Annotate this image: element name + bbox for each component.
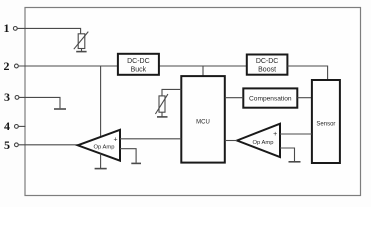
- wire U1 negative supply to ground: [100, 154, 102, 168]
- pin 5 terminal: [15, 143, 19, 147]
- wire DC-DC Buck to DC-DC Boost: [159, 65, 247, 67]
- svg-text:Compensation: Compensation: [249, 95, 292, 102]
- pin 2 terminal: [15, 64, 19, 68]
- ground at U1 inverting input: [131, 162, 141, 164]
- svg-text:Op Amp: Op Amp: [94, 145, 115, 151]
- wire pin5 to op-amp U1 output: [18, 144, 78, 146]
- ground below op-amp U1: [95, 168, 107, 170]
- svg-text:4: 4: [4, 119, 10, 133]
- wire U2 inverting input to ground: [280, 148, 295, 161]
- svg-text:+: +: [113, 136, 117, 143]
- Compensation block: [243, 88, 297, 107]
- pin 1 terminal: [13, 27, 17, 31]
- svg-text:Op Amp: Op Amp: [253, 140, 274, 146]
- svg-text:1: 1: [4, 21, 10, 35]
- thermistor RT2: [155, 94, 168, 114]
- svg-text:Boost: Boost: [258, 67, 276, 74]
- pin 3 terminal: [15, 96, 19, 100]
- wire Compensation to Sensor: [297, 97, 312, 99]
- wire junction drop to MCU top: [202, 66, 204, 76]
- wire junction drop to left op-amp supply: [100, 66, 102, 138]
- thermistor RT1: [74, 32, 89, 50]
- svg-text:+: +: [273, 131, 277, 138]
- svg-text:MCU: MCU: [196, 120, 210, 126]
- outer border frame of IC block: [25, 8, 361, 196]
- wire pin2 to DC-DC Buck: [18, 65, 118, 67]
- DC-DC Buck converter block: [118, 54, 159, 75]
- svg-text:DC-DC: DC-DC: [127, 58, 150, 65]
- wire U1 inverting input to ground: [120, 149, 136, 163]
- svg-text:Buck: Buck: [131, 67, 147, 74]
- wire U2 output to MCU: [225, 140, 237, 142]
- wire U2 non-inverting input to Sensor: [280, 133, 312, 135]
- MCU block: [181, 76, 225, 163]
- DC-DC Boost converter block: [247, 55, 288, 75]
- svg-text:Sensor: Sensor: [316, 122, 335, 128]
- svg-text:5: 5: [4, 138, 10, 152]
- ground below RT2: [157, 112, 168, 117]
- svg-text:2: 2: [4, 59, 10, 73]
- wire pin3 to ground: [19, 97, 60, 108]
- ground for pin 3: [54, 108, 66, 110]
- svg-text:3: 3: [4, 90, 10, 104]
- wire pin1 to thermistor RT1: [17, 28, 80, 33]
- svg-text:DC-DC: DC-DC: [256, 58, 279, 65]
- wire pin4 to border: [18, 125, 25, 127]
- op-amp U2 (right): [237, 124, 280, 157]
- Sensor block: [312, 80, 340, 163]
- ground below RT1: [76, 49, 86, 52]
- op-amp U1 (left): [78, 130, 120, 161]
- pin 4 terminal: [15, 125, 19, 129]
- wire MCU to Compensation: [225, 97, 244, 99]
- wire DC-DC Boost to Sensor top: [287, 66, 327, 80]
- wire MCU to thermistor RT2: [162, 89, 181, 96]
- ground at U2 inverting input: [289, 161, 301, 163]
- wire U1 non-inverting input to MCU: [120, 138, 181, 140]
